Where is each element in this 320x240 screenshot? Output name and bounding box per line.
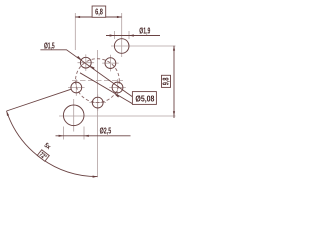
svg-text:9,8: 9,8: [162, 77, 171, 85]
svg-text:6,8: 6,8: [95, 8, 103, 17]
svg-text:Ø1,5: Ø1,5: [44, 40, 55, 50]
svg-text:Ø1,9: Ø1,9: [139, 26, 150, 36]
svg-text:Ø2,5: Ø2,5: [100, 126, 112, 136]
svg-text:Ø5,08: Ø5,08: [135, 94, 154, 104]
